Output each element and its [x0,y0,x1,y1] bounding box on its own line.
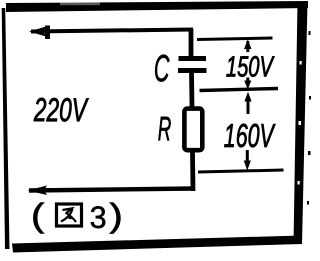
caption (图3) figure 3 [31,197,123,235]
svg-text:(: ( [31,197,44,234]
wire bottom conductor with left arrow [28,186,196,196]
wire top conductor with left arrow [29,26,193,40]
dimension line middle (between capacitor and resistor) [200,89,279,91]
svg-text:220V: 220V [33,91,89,128]
svg-text:3: 3 [90,200,107,235]
dimension line bottom (resistor bottom reference) [198,170,284,172]
svg-text:150V: 150V [226,51,275,83]
resistor R [184,109,202,151]
capacitor C [178,59,207,71]
wire between capacitor and resistor [189,72,194,107]
dimension line top (capacitor top reference) [197,38,273,40]
wire vertical from top corner down to capacitor [189,29,194,57]
wire vertical from resistor down to bottom corner [190,152,195,191]
svg-text:160V: 160V [224,117,276,154]
svg-text:): ) [110,197,123,234]
svg-text:C: C [154,48,170,90]
svg-text:R: R [158,110,172,148]
dimension arrows 150V span [244,40,252,90]
dimension arrows 160V span [244,92,252,171]
